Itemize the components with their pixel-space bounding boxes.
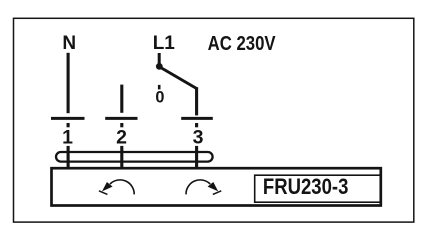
terminal 1 contact bar xyxy=(51,117,85,120)
actuator box U1 xyxy=(52,168,381,205)
switch S1 blade xyxy=(160,67,196,88)
wire pin 2 into box xyxy=(120,146,123,169)
svg-text:AC 230V: AC 230V xyxy=(208,33,277,55)
svg-text:0: 0 xyxy=(155,88,164,106)
switch S1 pivot xyxy=(156,63,163,70)
svg-text:N: N xyxy=(62,33,76,54)
switch off-position mark xyxy=(158,85,161,90)
wire pin 3 into box xyxy=(195,146,198,169)
nameplate box xyxy=(255,175,381,202)
svg-text:FRU230-3: FRU230-3 xyxy=(263,174,349,199)
wire pin 1 into box xyxy=(67,146,70,169)
wire N to terminal 1 xyxy=(67,53,70,113)
terminal 2 contact bar xyxy=(105,117,137,120)
svg-text:2: 2 xyxy=(116,127,127,149)
arrow CW rotation xyxy=(186,180,221,195)
wire switch to terminal 3 xyxy=(195,87,198,115)
svg-text:L1: L1 xyxy=(153,33,176,54)
pin 1 stub xyxy=(67,123,70,127)
svg-text:3: 3 xyxy=(193,127,204,149)
wire stub terminal 2 xyxy=(120,85,123,113)
pin 2 stub xyxy=(120,123,123,127)
terminal 3 contact bar xyxy=(181,117,213,120)
arrow CCW rotation xyxy=(99,180,134,195)
wire L1 stub xyxy=(158,53,161,64)
pin 3 stub xyxy=(195,123,198,127)
svg-text:1: 1 xyxy=(62,127,73,149)
cable bundle sleeve xyxy=(56,152,213,162)
